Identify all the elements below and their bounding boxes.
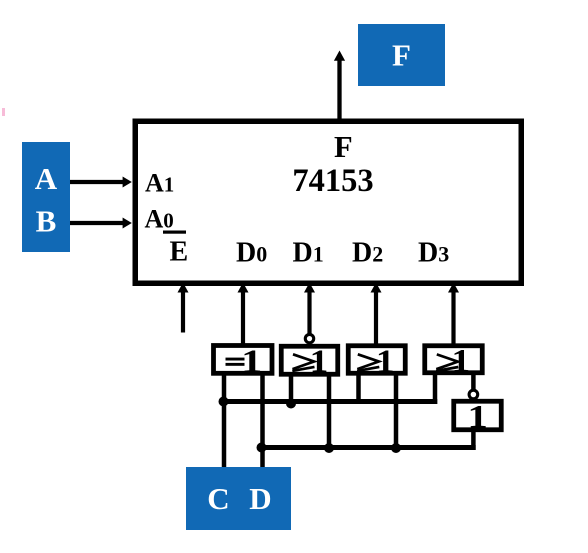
wire NOR out to D1	[307, 291, 311, 335]
C bus (horizontal)	[222, 399, 438, 404]
svg-text:D3: D3	[418, 238, 449, 269]
NOR gate (&#8805;1 with bubble)	[281, 346, 338, 374]
svg-text:F: F	[392, 38, 411, 73]
output bubble of NOR gate	[305, 334, 313, 342]
wire F output	[337, 59, 341, 121]
junction C vert / C bus	[219, 397, 229, 407]
overbar of E (active-low enable)	[163, 231, 186, 234]
svg-text:1: 1	[310, 343, 329, 379]
svg-text:1: 1	[452, 343, 471, 379]
arrowhead E	[178, 283, 189, 293]
wire OR3 right input to NOT bubble	[471, 373, 476, 391]
wire E stub	[181, 291, 185, 333]
wire B to A0	[70, 221, 124, 225]
svg-text:1: 1	[241, 344, 262, 380]
wire XOR out to D0	[241, 291, 245, 345]
output bubble of NOT gate	[469, 390, 478, 399]
svg-text:A0: A0	[145, 205, 174, 234]
junction NOR left / C bus	[286, 399, 296, 409]
junction NOR right / D bus	[324, 443, 334, 453]
arrowhead D2	[371, 283, 382, 293]
D bus (horizontal)	[260, 445, 475, 450]
IC U1 74153 box	[135, 121, 521, 283]
edge artifact	[2, 108, 5, 116]
arrowhead D0	[238, 283, 249, 293]
arrowhead B	[123, 218, 132, 229]
svg-text:A1: A1	[145, 169, 174, 198]
svg-text:F: F	[334, 130, 353, 164]
arrowhead F output	[334, 51, 345, 61]
wire A to A1	[70, 180, 124, 184]
wire NOR left input to C bus	[289, 374, 294, 403]
wire OR2 right input to D bus	[394, 374, 399, 450]
node F (blue box)	[358, 24, 445, 86]
wire NOT input from D bus	[471, 430, 476, 450]
svg-text:74153: 74153	[292, 163, 373, 199]
svg-text:D: D	[249, 481, 271, 516]
NOT gate (1)	[454, 401, 502, 430]
arrowhead D1	[304, 283, 315, 293]
svg-text:A: A	[35, 161, 58, 196]
wire OR2 out to D2	[374, 291, 378, 345]
wire OR3 left input to C bus end	[433, 373, 438, 404]
svg-text:D1: D1	[293, 238, 324, 269]
junction D vert / D bus	[257, 443, 267, 453]
wire OR2 left input to C bus	[356, 374, 361, 404]
svg-text:D0: D0	[236, 238, 267, 269]
svg-text:1: 1	[468, 398, 488, 434]
arrowhead D3	[448, 283, 459, 293]
svg-text:1: 1	[376, 343, 395, 379]
svg-text:B: B	[36, 204, 57, 239]
node A B (blue input box)	[22, 142, 70, 252]
svg-text:D2: D2	[352, 238, 383, 269]
arrowhead A	[123, 177, 132, 188]
node C D (blue input box)	[186, 467, 291, 530]
OR gate U4 (&#8805;1)	[425, 346, 483, 373]
OR gate U3 (&#8805;1)	[348, 346, 405, 374]
junction OR2 right / D bus	[391, 443, 401, 453]
svg-text:C: C	[207, 481, 229, 516]
wire NOR right input to D bus	[327, 374, 332, 449]
wire OR3 out to D3	[451, 291, 455, 345]
wire C vertical (C box to XOR left input)	[222, 373, 227, 469]
wire D vertical (D box to XOR right input)	[260, 373, 265, 469]
XOR gate (=1)	[214, 346, 273, 374]
svg-text:E: E	[170, 237, 189, 268]
